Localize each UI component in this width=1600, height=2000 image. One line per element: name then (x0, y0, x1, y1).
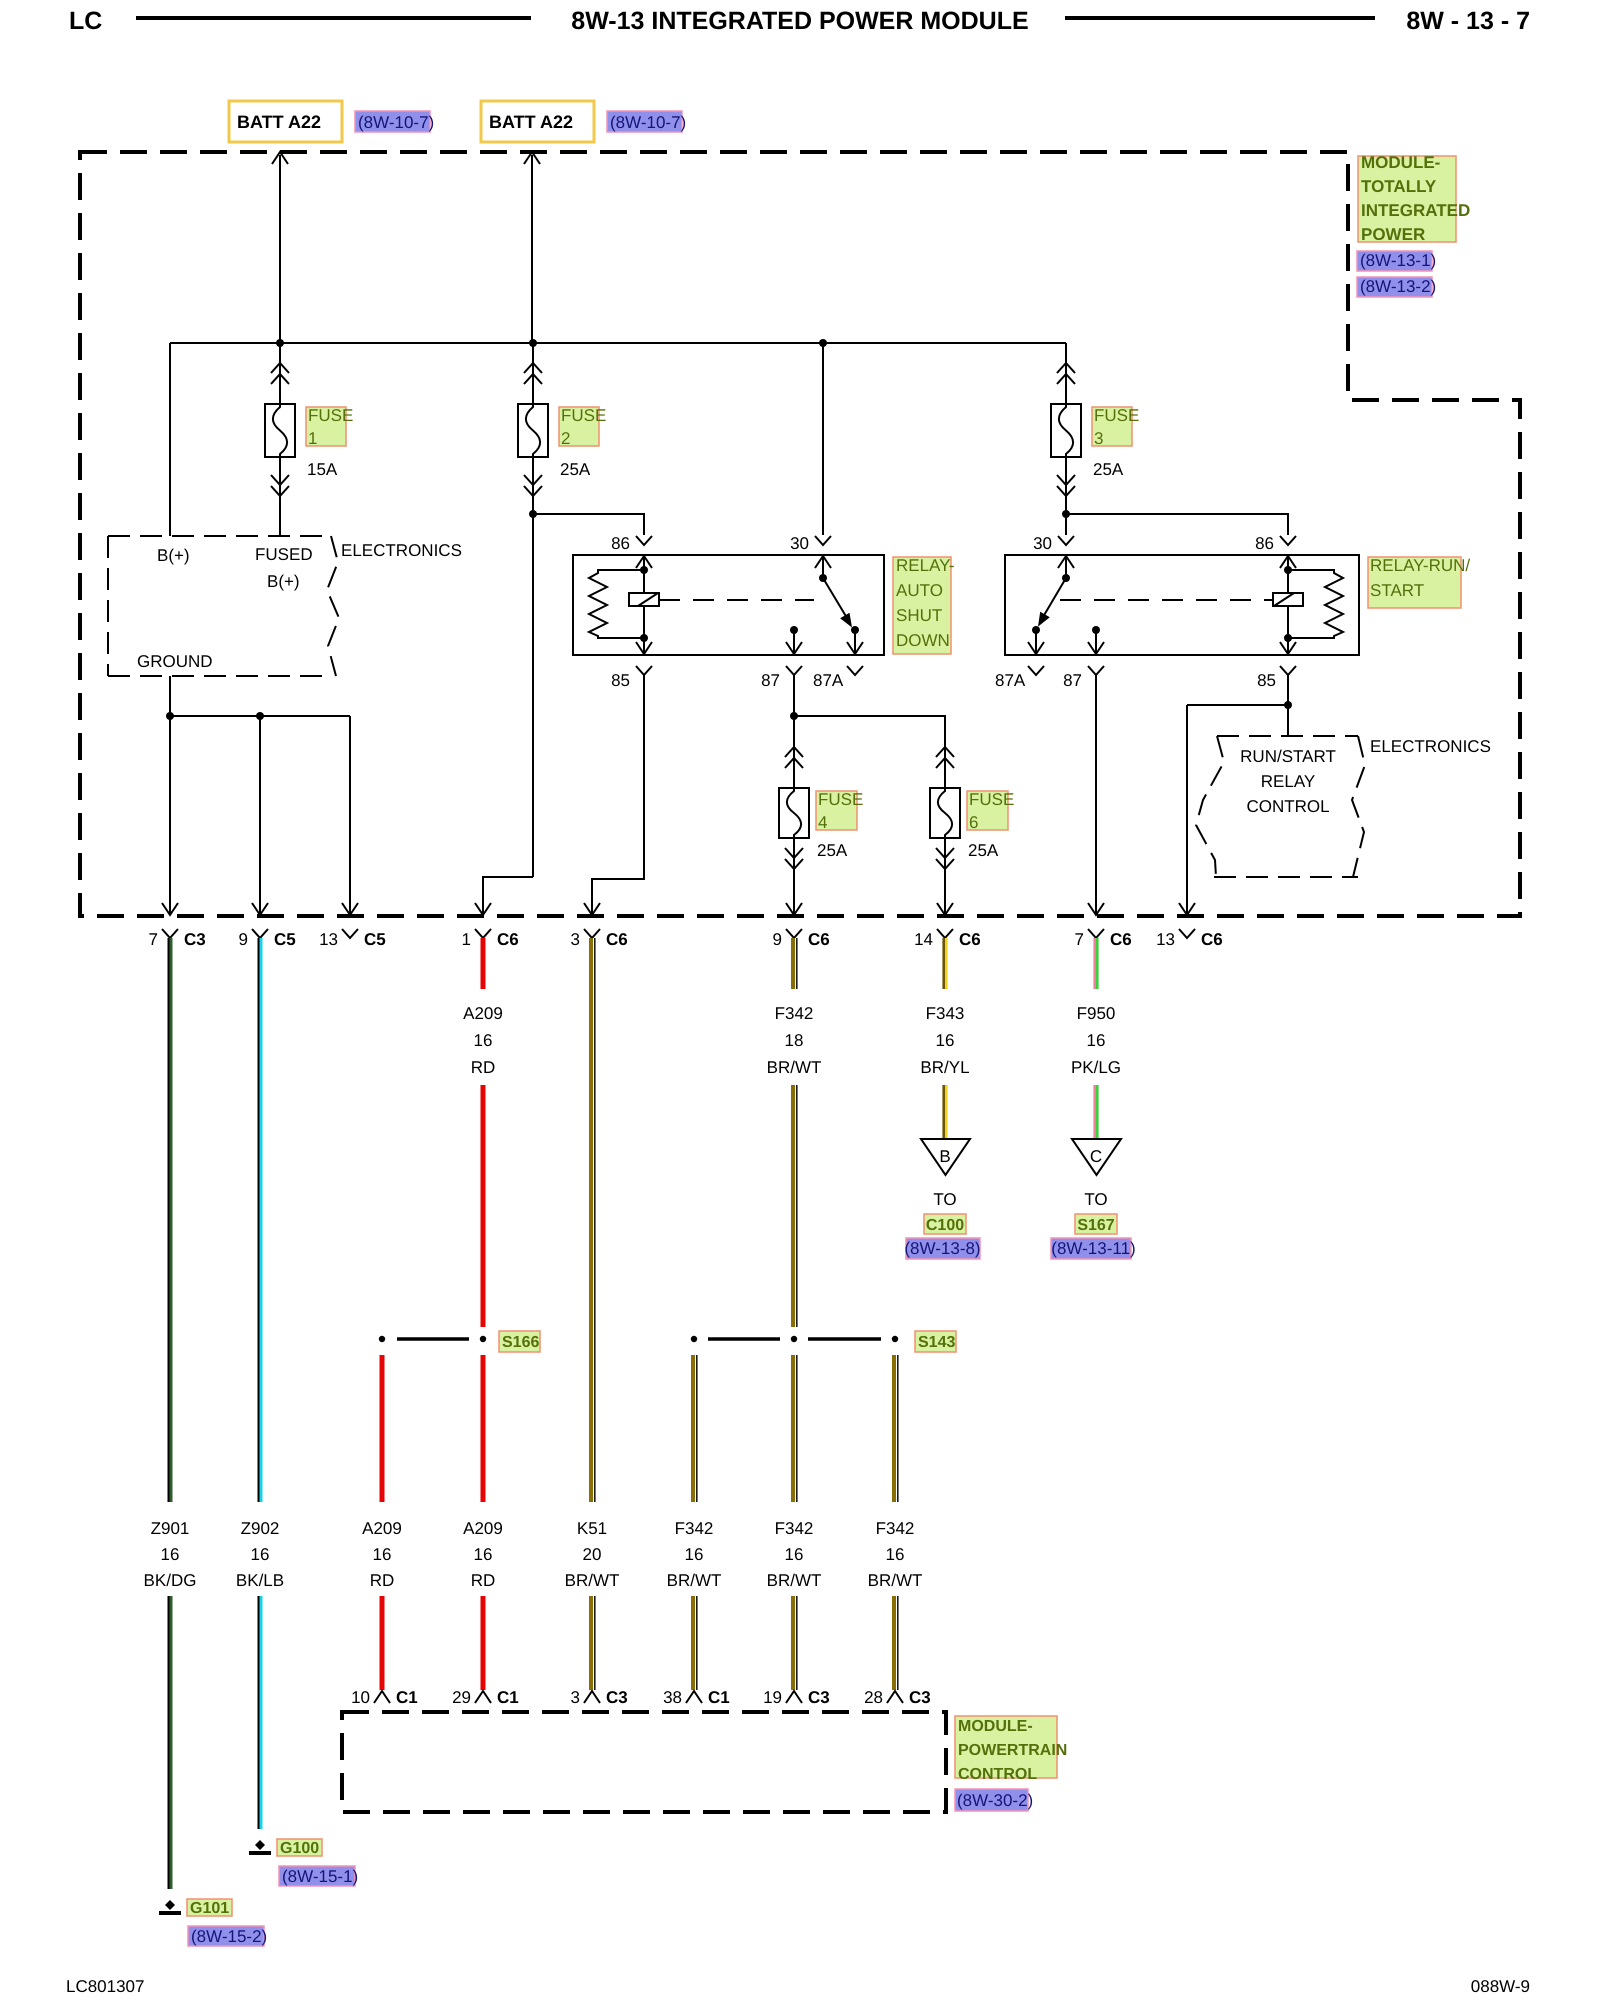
svg-text:86: 86 (1255, 534, 1274, 553)
svg-text:16: 16 (474, 1031, 493, 1050)
svg-text:BATT A22: BATT A22 (237, 112, 321, 132)
svg-text:16: 16 (474, 1545, 493, 1564)
svg-text:7: 7 (1075, 930, 1084, 949)
svg-text:C6: C6 (1110, 930, 1132, 949)
svg-text:S167: S167 (1077, 1217, 1114, 1234)
svg-text:START: START (1370, 581, 1424, 600)
svg-text:25A: 25A (968, 841, 999, 860)
svg-text:7: 7 (149, 930, 158, 949)
svg-text:BR/WT: BR/WT (767, 1058, 822, 1077)
svg-text:16: 16 (785, 1545, 804, 1564)
svg-text:S166: S166 (502, 1334, 539, 1351)
svg-text:(8W-13-8): (8W-13-8) (904, 1239, 980, 1258)
svg-text:BR/WT: BR/WT (868, 1571, 923, 1590)
svg-text:1: 1 (462, 930, 471, 949)
svg-text:10: 10 (351, 1688, 370, 1707)
svg-text:C6: C6 (959, 930, 981, 949)
svg-text:B(+): B(+) (267, 572, 300, 591)
svg-text:C1: C1 (497, 1688, 519, 1707)
svg-text:C5: C5 (274, 930, 296, 949)
svg-text:F950: F950 (1077, 1004, 1116, 1023)
svg-text:13: 13 (319, 930, 338, 949)
svg-text:TOTALLY: TOTALLY (1361, 177, 1437, 196)
svg-text:C5: C5 (364, 930, 386, 949)
svg-text:25A: 25A (560, 460, 591, 479)
svg-text:FUSE: FUSE (1094, 406, 1139, 425)
svg-text:C100: C100 (926, 1217, 964, 1234)
svg-text:(8W-10-7): (8W-10-7) (358, 113, 434, 132)
svg-text:C3: C3 (606, 1688, 628, 1707)
svg-text:CONTROL: CONTROL (1246, 797, 1329, 816)
svg-text:AUTO: AUTO (896, 581, 943, 600)
svg-text:C6: C6 (606, 930, 628, 949)
svg-text:16: 16 (251, 1545, 270, 1564)
svg-text:BK/LB: BK/LB (236, 1571, 284, 1590)
svg-text:INTEGRATED: INTEGRATED (1361, 201, 1470, 220)
svg-text:MODULE-: MODULE- (958, 1718, 1033, 1735)
svg-text:F342: F342 (876, 1519, 915, 1538)
svg-text:4: 4 (818, 813, 827, 832)
svg-text:(8W-15-2): (8W-15-2) (191, 1927, 267, 1946)
svg-text:FUSE: FUSE (308, 406, 353, 425)
svg-text:RD: RD (471, 1058, 496, 1077)
svg-text:F342: F342 (775, 1519, 814, 1538)
svg-text:BR/YL: BR/YL (920, 1058, 969, 1077)
svg-text:3: 3 (1094, 429, 1103, 448)
svg-text:C6: C6 (1201, 930, 1223, 949)
svg-text:6: 6 (969, 813, 978, 832)
svg-text:RELAY-RUN/: RELAY-RUN/ (1370, 556, 1470, 575)
svg-text:C: C (1090, 1147, 1102, 1166)
svg-text:38: 38 (663, 1688, 682, 1707)
svg-text:SHUT: SHUT (896, 606, 942, 625)
svg-text:C1: C1 (708, 1688, 730, 1707)
svg-text:B(+): B(+) (157, 546, 190, 565)
svg-text:86: 86 (611, 534, 630, 553)
svg-text:8W - 13 - 7: 8W - 13 - 7 (1406, 7, 1530, 35)
svg-text:85: 85 (611, 671, 630, 690)
svg-text:TO: TO (1084, 1190, 1107, 1209)
svg-text:3: 3 (571, 930, 580, 949)
svg-text:16: 16 (886, 1545, 905, 1564)
svg-text:POWER: POWER (1361, 225, 1425, 244)
svg-text:GROUND: GROUND (137, 652, 213, 671)
svg-text:RELAY: RELAY (1261, 772, 1316, 791)
svg-text:16: 16 (373, 1545, 392, 1564)
svg-text:ELECTRONICS: ELECTRONICS (341, 541, 462, 560)
svg-text:C1: C1 (396, 1688, 418, 1707)
svg-text:BR/WT: BR/WT (565, 1571, 620, 1590)
svg-text:088W-9: 088W-9 (1471, 1977, 1530, 1996)
svg-text:RELAY-: RELAY- (896, 556, 955, 575)
svg-text:9: 9 (773, 930, 782, 949)
svg-text:16: 16 (936, 1031, 955, 1050)
svg-text:(8W-13-11): (8W-13-11) (1051, 1239, 1135, 1258)
svg-text:FUSE: FUSE (561, 406, 606, 425)
svg-text:DOWN: DOWN (896, 631, 950, 650)
svg-text:A209: A209 (362, 1519, 402, 1538)
svg-text:CONTROL: CONTROL (958, 1766, 1037, 1783)
svg-text:MODULE-: MODULE- (1361, 153, 1440, 172)
svg-text:C3: C3 (184, 930, 206, 949)
svg-text:15A: 15A (307, 460, 338, 479)
svg-text:(8W-13-2): (8W-13-2) (1360, 277, 1436, 296)
svg-text:FUSED: FUSED (255, 545, 313, 564)
svg-text:LC801307: LC801307 (66, 1977, 144, 1996)
svg-text:G100: G100 (280, 1840, 319, 1857)
svg-text:B: B (939, 1147, 950, 1166)
svg-text:87A: 87A (995, 671, 1026, 690)
svg-text:20: 20 (583, 1545, 602, 1564)
svg-text:18: 18 (785, 1031, 804, 1050)
svg-text:C6: C6 (808, 930, 830, 949)
svg-text:PK/LG: PK/LG (1071, 1058, 1121, 1077)
svg-text:30: 30 (1033, 534, 1052, 553)
svg-text:16: 16 (161, 1545, 180, 1564)
svg-text:ELECTRONICS: ELECTRONICS (1370, 737, 1491, 756)
svg-text:(8W-30-2): (8W-30-2) (957, 1791, 1033, 1810)
svg-text:BR/WT: BR/WT (767, 1571, 822, 1590)
svg-text:25A: 25A (817, 841, 848, 860)
svg-text:C3: C3 (909, 1688, 931, 1707)
svg-text:C3: C3 (808, 1688, 830, 1707)
svg-text:FUSE: FUSE (969, 790, 1014, 809)
svg-text:87: 87 (761, 671, 780, 690)
svg-text:A209: A209 (463, 1519, 503, 1538)
svg-text:16: 16 (1087, 1031, 1106, 1050)
svg-text:9: 9 (239, 930, 248, 949)
svg-text:30: 30 (790, 534, 809, 553)
svg-text:A209: A209 (463, 1004, 503, 1023)
svg-text:K51: K51 (577, 1519, 607, 1538)
svg-text:G101: G101 (190, 1900, 229, 1917)
svg-text:S143: S143 (918, 1334, 955, 1351)
svg-text:BATT A22: BATT A22 (489, 112, 573, 132)
svg-text:F342: F342 (675, 1519, 714, 1538)
svg-text:14: 14 (914, 930, 933, 949)
svg-text:8W-13 INTEGRATED POWER MODULE: 8W-13 INTEGRATED POWER MODULE (571, 7, 1028, 35)
svg-text:85: 85 (1257, 671, 1276, 690)
svg-text:F343: F343 (926, 1004, 965, 1023)
svg-text:13: 13 (1156, 930, 1175, 949)
svg-text:BR/WT: BR/WT (667, 1571, 722, 1590)
svg-text:LC: LC (69, 7, 102, 35)
svg-text:25A: 25A (1093, 460, 1124, 479)
svg-text:F342: F342 (775, 1004, 814, 1023)
svg-text:28: 28 (864, 1688, 883, 1707)
svg-text:C6: C6 (497, 930, 519, 949)
svg-text:87A: 87A (813, 671, 844, 690)
svg-text:(8W-13-1): (8W-13-1) (1360, 251, 1436, 270)
svg-text:BK/DG: BK/DG (144, 1571, 197, 1590)
svg-text:87: 87 (1063, 671, 1082, 690)
svg-text:1: 1 (308, 429, 317, 448)
svg-text:FUSE: FUSE (818, 790, 863, 809)
svg-text:2: 2 (561, 429, 570, 448)
svg-text:TO: TO (933, 1190, 956, 1209)
svg-text:16: 16 (685, 1545, 704, 1564)
svg-text:RD: RD (471, 1571, 496, 1590)
svg-text:29: 29 (452, 1688, 471, 1707)
svg-text:POWERTRAIN: POWERTRAIN (958, 1742, 1067, 1759)
svg-text:RUN/START: RUN/START (1240, 747, 1336, 766)
svg-text:Z901: Z901 (151, 1519, 190, 1538)
svg-text:(8W-10-7): (8W-10-7) (610, 113, 686, 132)
svg-text:Z902: Z902 (241, 1519, 280, 1538)
svg-text:3: 3 (571, 1688, 580, 1707)
svg-text:(8W-15-1): (8W-15-1) (282, 1867, 358, 1886)
svg-text:RD: RD (370, 1571, 395, 1590)
svg-text:19: 19 (763, 1688, 782, 1707)
